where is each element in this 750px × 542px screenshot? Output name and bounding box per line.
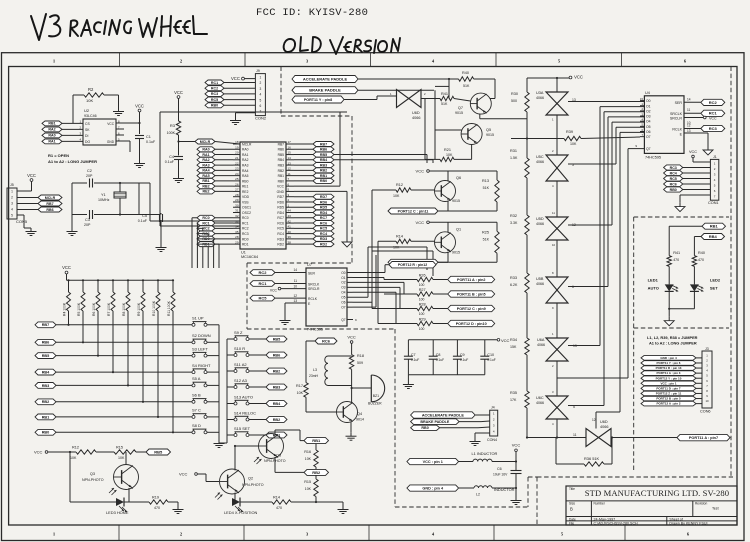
- svg-text:SER: SER: [675, 101, 683, 105]
- svg-text:3: 3: [260, 87, 262, 91]
- pill CON4 ACCELERATE: [411, 412, 490, 418]
- svg-text:RC2: RC2: [202, 227, 209, 231]
- resistor ladder R4-R11 100K: [62, 279, 175, 433]
- svg-text:21: 21: [235, 156, 239, 160]
- svg-text:RB2: RB2: [42, 400, 50, 404]
- svg-text:10: 10: [293, 284, 297, 288]
- svg-text:O5: O5: [646, 125, 651, 129]
- wire Q7 emitter to R30 node: [480, 114, 527, 119]
- svg-text:O2: O2: [341, 281, 345, 285]
- buzzer BZ1: [352, 375, 385, 406]
- transistor Q7 9015: [455, 93, 491, 115]
- svg-text:VCC: VCC: [501, 338, 510, 343]
- pills MCLR RB7 RB6: [17, 195, 62, 228]
- pills U1 left RC0-RD1: [192, 215, 233, 268]
- svg-text:RD2: RD2: [277, 243, 284, 247]
- svg-text:J3: J3: [705, 347, 709, 351]
- svg-text:9014: 9014: [356, 418, 364, 422]
- svg-text:U4: U4: [645, 91, 650, 95]
- analog switch U6C 4066: [536, 361, 575, 426]
- connector J5 CON5: [7, 183, 28, 224]
- pill RC1 U7: [250, 279, 306, 286]
- resistor R2: [73, 87, 119, 123]
- pill RC2 U7: [250, 268, 306, 275]
- svg-text:RC3: RC3: [709, 126, 718, 131]
- svg-text:CS: CS: [85, 122, 90, 126]
- svg-text:O7: O7: [646, 135, 651, 139]
- resistor R33: [510, 273, 529, 293]
- wire RB4 row to right: [334, 160, 433, 276]
- svg-text:35: 35: [235, 230, 239, 234]
- analog switch U3A 4066: [536, 78, 576, 122]
- capacitor bank C7-C10: [404, 338, 510, 381]
- pills U1 left RA0-RA5: [197, 147, 233, 194]
- pill RC3 RCLK: [684, 124, 725, 132]
- vcc buzzer: [347, 334, 356, 354]
- svg-text:R10 100K: R10 100K: [152, 300, 156, 316]
- svg-text:RB0: RB0: [242, 179, 249, 183]
- svg-text:RB1: RB1: [42, 415, 50, 419]
- dashed sub-circuit outlines: [247, 67, 733, 525]
- svg-text:15: 15: [640, 97, 643, 101]
- svg-text:RC1: RC1: [202, 221, 209, 225]
- svg-text:4: 4: [11, 208, 13, 212]
- resistor R14 bottom: [272, 496, 316, 511]
- svg-text:VCC: VCC: [574, 75, 583, 80]
- svg-text:RC2: RC2: [242, 227, 249, 231]
- svg-text:C7: C7: [411, 353, 416, 357]
- svg-text:C5: C5: [142, 214, 147, 218]
- wire chain bottom to U6D: [527, 419, 586, 438]
- svg-text:PORT11 D : pin 7: PORT11 D : pin 7: [656, 386, 681, 390]
- svg-text:R34: R34: [510, 338, 517, 342]
- svg-text:J5: J5: [10, 183, 14, 187]
- resistor R15 bottom: [114, 446, 146, 461]
- ground below C4: [173, 175, 184, 183]
- svg-text:VCC: VCC: [416, 220, 425, 225]
- svg-text:3.3K: 3.3K: [510, 221, 518, 225]
- svg-text:9015: 9015: [452, 199, 460, 203]
- svg-text:51K: 51K: [441, 102, 448, 106]
- svg-text:RA5: RA5: [242, 174, 249, 178]
- switches S1-S8: [191, 316, 219, 440]
- pills J1: [664, 165, 711, 192]
- eeprom U2: [79, 108, 120, 145]
- ground CON4: [470, 438, 481, 446]
- svg-text:19: 19: [235, 145, 239, 149]
- capacitor C5: [138, 213, 163, 244]
- svg-text:RB5: RB5: [154, 449, 163, 454]
- svg-text:4066: 4066: [536, 160, 544, 164]
- resistor R30: [511, 92, 529, 112]
- svg-text:CON1: CON1: [708, 201, 719, 205]
- svg-text:PORT12 A : pin 2: PORT12 A : pin 2: [656, 402, 680, 406]
- svg-text:Number: Number: [594, 502, 606, 506]
- svg-text:4066: 4066: [536, 401, 544, 405]
- svg-text:31: 31: [235, 209, 239, 213]
- svg-text:O6: O6: [646, 130, 651, 134]
- pill RB2 bottom: [304, 469, 329, 475]
- svg-text:OSC2: OSC2: [242, 211, 251, 215]
- svg-text:RC6: RC6: [277, 221, 284, 225]
- svg-text:S14 RELOC: S14 RELOC: [234, 410, 256, 415]
- svg-text:23: 23: [235, 167, 239, 171]
- wire CON2 pin7 ground: [236, 113, 256, 117]
- svg-text:J1: J1: [713, 155, 717, 159]
- resistor R41 470: [667, 251, 680, 284]
- svg-text:RC7: RC7: [320, 216, 327, 220]
- resistor R18: [349, 354, 364, 388]
- svg-text:11: 11: [552, 211, 555, 215]
- svg-text:R28: R28: [419, 303, 426, 307]
- svg-text:RD7: RD7: [277, 195, 284, 199]
- svg-text:SK: SK: [85, 128, 90, 132]
- svg-text:10K: 10K: [118, 456, 125, 460]
- svg-text:VCC : pin 1: VCC : pin 1: [423, 460, 443, 464]
- svg-text:R17: R17: [296, 384, 303, 388]
- svg-text:U6D: U6D: [600, 420, 608, 424]
- svg-text:12: 12: [288, 167, 292, 171]
- svg-text:RB5: RB5: [273, 337, 281, 341]
- svg-text:PORT11 R : pin 13: PORT11 R : pin 13: [656, 366, 682, 370]
- svg-text:RA5: RA5: [202, 174, 209, 178]
- svg-text:15K: 15K: [510, 345, 517, 349]
- svg-text:R12: R12: [396, 183, 403, 187]
- svg-text:O5: O5: [341, 296, 345, 300]
- svg-text:O4: O4: [646, 120, 651, 124]
- svg-text:R15: R15: [304, 480, 311, 484]
- resistor R12 bottom: [70, 446, 114, 461]
- svg-text:CON6: CON6: [700, 409, 711, 413]
- svg-text:R2: R2: [88, 87, 94, 92]
- pill RB1 bottom: [304, 438, 329, 444]
- svg-text:SET: SET: [710, 286, 718, 291]
- mcu U1 MC16C64: [233, 140, 294, 259]
- svg-text:RB3: RB3: [273, 385, 281, 389]
- svg-text:PORT11 Y : pin8: PORT11 Y : pin8: [304, 98, 332, 102]
- LED1 AUTO: [648, 278, 679, 309]
- svg-text:RC2: RC2: [709, 100, 718, 105]
- pill RC2 SER: [684, 97, 725, 105]
- svg-text:12: 12: [293, 294, 297, 298]
- svg-text:S10 R: S10 R: [234, 346, 245, 351]
- svg-text:PORT11 A : pin7: PORT11 A : pin7: [689, 436, 718, 440]
- svg-text:11: 11: [294, 279, 298, 283]
- svg-text:R3: R3: [170, 123, 176, 128]
- svg-text:RB1: RB1: [278, 174, 285, 178]
- svg-text:NPN-PHOTO: NPN-PHOTO: [242, 483, 264, 487]
- pill MCLR to U1: [179, 139, 241, 144]
- svg-text:100K: 100K: [167, 131, 176, 135]
- svg-text:C6: C6: [497, 467, 502, 471]
- svg-text:34: 34: [235, 225, 239, 229]
- note jumper: [647, 335, 698, 346]
- svg-text:RA0: RA0: [242, 148, 249, 152]
- svg-text:R4 100K: R4 100K: [62, 302, 66, 316]
- resistor R17: [296, 383, 336, 412]
- svg-text:1: 1: [260, 76, 262, 80]
- svg-text:74HC595: 74HC595: [645, 156, 661, 160]
- pill GND pin4: [407, 485, 474, 491]
- svg-text:23mH: 23mH: [309, 374, 319, 378]
- svg-text:R6 100K: R6 100K: [92, 302, 96, 316]
- pill PORT11 A pin7 out: [611, 434, 730, 440]
- ground U7: [280, 317, 291, 325]
- svg-text:12: 12: [687, 124, 691, 128]
- svg-text:RB6: RB6: [42, 341, 50, 345]
- pill VCC pin1: [407, 458, 473, 464]
- svg-text:RD7: RD7: [320, 195, 327, 199]
- svg-text:RD5: RD5: [320, 206, 327, 210]
- resistor R39: [511, 130, 640, 146]
- pill CON4 BRAKE: [411, 419, 490, 425]
- svg-text:RC1: RC1: [709, 111, 718, 116]
- svg-text:VCC: VCC: [231, 76, 240, 81]
- svg-text:RD3: RD3: [320, 237, 327, 241]
- svg-text:43: 43: [288, 214, 292, 218]
- wire U1 GND pin: [294, 191, 347, 238]
- svg-text:RB5: RB5: [278, 153, 285, 157]
- svg-text:10K: 10K: [393, 194, 400, 198]
- svg-text:VCC: VCC: [62, 265, 71, 270]
- svg-text:R41: R41: [441, 92, 448, 96]
- pill CON4 RB0: [411, 425, 490, 430]
- vcc J1: [689, 150, 710, 162]
- svg-text:RB0: RB0: [320, 179, 327, 183]
- svg-text:PORT11 A : pin2: PORT11 A : pin2: [457, 278, 485, 282]
- svg-text:32: 32: [235, 214, 239, 218]
- svg-text:Q3: Q3: [90, 472, 95, 476]
- svg-text:PORT12 B : pin 5: PORT12 B : pin 5: [656, 397, 681, 401]
- svg-text:10K: 10K: [305, 487, 312, 491]
- svg-text:100: 100: [419, 327, 425, 331]
- svg-text:MC16C64: MC16C64: [241, 255, 258, 259]
- pill RB5 bottom: [146, 449, 171, 455]
- svg-text:L1 INDUCTOR: L1 INDUCTOR: [472, 451, 498, 456]
- svg-text:4066: 4066: [536, 222, 544, 226]
- svg-text:B: B: [570, 507, 573, 512]
- svg-text:RC6: RC6: [320, 221, 327, 225]
- svg-text:RB5: RB5: [320, 153, 327, 157]
- svg-text:Q2: Q2: [248, 477, 253, 481]
- svg-text:26: 26: [235, 182, 239, 186]
- svg-text:Q4: Q4: [357, 412, 362, 416]
- svg-text:4066: 4066: [412, 116, 420, 120]
- svg-text:41: 41: [288, 225, 292, 229]
- pill PORT11 Y pin8: [292, 96, 396, 103]
- svg-text:4066: 4066: [537, 343, 545, 347]
- inductor L1: [472, 451, 517, 462]
- svg-text:R30: R30: [511, 92, 518, 96]
- svg-text:S1 UP: S1 UP: [192, 316, 204, 321]
- svg-text:U1: U1: [241, 251, 246, 255]
- svg-text:R19: R19: [152, 496, 159, 500]
- svg-text:U6C: U6C: [536, 396, 544, 400]
- wire U7 E ground: [285, 299, 306, 317]
- svg-text:20: 20: [235, 151, 239, 155]
- svg-text:DI: DI: [85, 134, 88, 138]
- svg-text:O1: O1: [646, 104, 651, 108]
- svg-text:10K: 10K: [86, 98, 93, 103]
- svg-text:S9 Z: S9 Z: [234, 330, 243, 335]
- svg-text:BZ1: BZ1: [373, 394, 379, 398]
- vcc bottom left: [34, 450, 70, 455]
- pills U1 right RD7-RC4: [294, 194, 334, 246]
- analog switch U6D bottom 4066: [586, 418, 611, 447]
- pill RB1 LED1: [669, 223, 725, 255]
- ground arrow U4 E: [703, 146, 713, 155]
- svg-text:100: 100: [419, 283, 425, 287]
- svg-text:GND: GND: [107, 140, 115, 144]
- ground below C1: [134, 160, 145, 168]
- svg-text:SER: SER: [308, 271, 316, 275]
- svg-text:RC0: RC0: [242, 216, 249, 220]
- svg-text:RB5: RB5: [42, 354, 50, 358]
- svg-text:Revision: Revision: [695, 502, 707, 506]
- vcc switch column: [527, 75, 583, 80]
- svg-text:R25: R25: [482, 230, 489, 234]
- svg-text:S13 AUTO: S13 AUTO: [234, 394, 253, 399]
- svg-text:4: 4: [260, 93, 262, 97]
- ground arrow J1: [675, 203, 685, 212]
- svg-text:O1: O1: [341, 276, 345, 280]
- svg-text:S4 RIGHT: S4 RIGHT: [192, 363, 211, 368]
- connector J4 CON4: [487, 406, 498, 443]
- svg-text:C10: C10: [487, 353, 494, 357]
- svg-text:RC6: RC6: [670, 182, 677, 186]
- vcc U7 SRCLR: [270, 284, 306, 292]
- svg-text:5: 5: [11, 214, 13, 218]
- svg-text:RC4: RC4: [320, 232, 327, 236]
- svg-text:15: 15: [288, 151, 292, 155]
- svg-text:R9 100K: R9 100K: [137, 302, 141, 316]
- svg-text:500: 500: [511, 99, 517, 103]
- transistor Q5 9015: [461, 124, 494, 145]
- svg-text:RD6: RD6: [277, 200, 284, 204]
- svg-text:13: 13: [288, 161, 292, 165]
- svg-text:RA0: RA0: [48, 134, 55, 138]
- svg-text:1.5K: 1.5K: [510, 156, 518, 160]
- title block STD MANUFACTURING LTD SV-280: [566, 486, 737, 526]
- svg-text:2: 2: [11, 196, 13, 200]
- svg-text:Q6: Q6: [456, 176, 461, 180]
- wire PORT12C net: [371, 190, 373, 309]
- svg-text:RC4: RC4: [670, 171, 677, 175]
- svg-text:GND : pin 4: GND : pin 4: [422, 486, 444, 490]
- handwritten title V3 RACING WHEEL: [31, 14, 207, 40]
- svg-text:470: 470: [673, 258, 679, 262]
- svg-text:RA1: RA1: [242, 153, 249, 157]
- svg-text:LED4 X-POSITION: LED4 X-POSITION: [224, 510, 257, 515]
- svg-text:RB4: RB4: [273, 402, 281, 406]
- vcc C6: [512, 443, 521, 462]
- svg-text:R14: R14: [396, 234, 403, 238]
- svg-text:O0: O0: [341, 271, 345, 275]
- svg-text:PORT11 B : pin5: PORT11 B : pin5: [457, 292, 486, 296]
- svg-text:RB4: RB4: [278, 158, 285, 162]
- svg-text:10MHz: 10MHz: [98, 198, 110, 202]
- svg-text:VCC: VCC: [270, 289, 278, 293]
- svg-text:RA4: RA4: [202, 169, 209, 173]
- svg-text:VCC : pin 1: VCC : pin 1: [660, 381, 676, 385]
- ground switches left: [214, 440, 225, 448]
- svg-text:RC6: RC6: [322, 338, 331, 343]
- wire J1 pin7 ground: [680, 195, 710, 203]
- svg-text:R15: R15: [116, 446, 123, 450]
- svg-text:SRCLR: SRCLR: [308, 287, 320, 291]
- svg-text:VCC: VCC: [27, 173, 36, 178]
- svg-text:PORT11 A : pin 3: PORT11 A : pin 3: [657, 371, 681, 375]
- svg-text:16: 16: [288, 145, 292, 149]
- svg-text:RA1: RA1: [48, 140, 55, 144]
- wire U1 VCC pin: [294, 112, 340, 186]
- resistor R15b: [304, 475, 343, 502]
- svg-text:VCC: VCC: [689, 150, 697, 154]
- svg-text:VCC: VCC: [135, 104, 144, 109]
- svg-text:A1 to A2 : LONG JUMPER: A1 to A2 : LONG JUMPER: [649, 341, 697, 346]
- handwritten note OLD VERSION: [284, 37, 400, 54]
- svg-text:RB1: RB1: [320, 174, 327, 178]
- svg-text:2: 2: [260, 81, 262, 85]
- svg-text:S15 SET: S15 SET: [234, 426, 251, 431]
- svg-text:R21: R21: [444, 148, 451, 152]
- wires U7 outputs: [353, 247, 437, 324]
- svg-text:C3: C3: [85, 218, 90, 222]
- svg-text:4066: 4066: [536, 96, 544, 100]
- svg-text:10K: 10K: [570, 142, 577, 146]
- svg-text:33: 33: [235, 219, 239, 223]
- svg-text:PORT11 Y : pin 6: PORT11 Y : pin 6: [657, 361, 681, 365]
- svg-text:3: 3: [11, 202, 13, 206]
- svg-text:CON2: CON2: [255, 116, 267, 121]
- transistor Q2 NPN-PHOTO: [215, 446, 264, 502]
- svg-text:RC5: RC5: [320, 227, 327, 231]
- svg-text:0.1uF: 0.1uF: [165, 160, 175, 164]
- svg-text:VCC: VCC: [709, 117, 717, 121]
- node pills RB1 RA2 RA0 RA1: [42, 121, 83, 144]
- svg-text:13: 13: [293, 299, 297, 303]
- svg-text:R18: R18: [357, 354, 364, 358]
- svg-text:RA2: RA2: [48, 128, 55, 132]
- ground CON2: [230, 117, 241, 125]
- pill BRAKE PADDLE: [292, 87, 434, 94]
- pill RB4 LED2: [694, 234, 724, 256]
- ground below C5: [156, 244, 167, 252]
- svg-text:CON4: CON4: [487, 438, 497, 442]
- svg-text:RB1: RB1: [202, 179, 209, 183]
- ground below R2: [113, 108, 124, 116]
- svg-text:RA1: RA1: [202, 153, 209, 157]
- resistor chain wire: [526, 78, 528, 438]
- wire CON4 pin4 ground: [475, 433, 490, 438]
- resistor R19: [149, 496, 178, 511]
- svg-text:RE1: RE1: [242, 185, 249, 189]
- svg-text:VCC: VCC: [512, 443, 521, 448]
- svg-text:RB6: RB6: [273, 353, 281, 357]
- svg-text:RD1: RD1: [242, 243, 249, 247]
- pills U1 right RB7-RB0: [294, 142, 334, 184]
- svg-text:J9: J9: [256, 69, 260, 73]
- wire VDD routing: [160, 112, 347, 215]
- svg-text:RB0: RB0: [278, 179, 285, 183]
- svg-text:ACCELERATE PADDLE: ACCELERATE PADDLE: [303, 76, 348, 81]
- svg-text:22: 22: [235, 161, 239, 165]
- svg-text:9015: 9015: [452, 250, 460, 254]
- svg-text:39: 39: [288, 235, 292, 239]
- svg-text:RB2: RB2: [202, 184, 209, 188]
- svg-text:AUTO: AUTO: [648, 286, 659, 291]
- svg-text:1: 1: [11, 190, 13, 194]
